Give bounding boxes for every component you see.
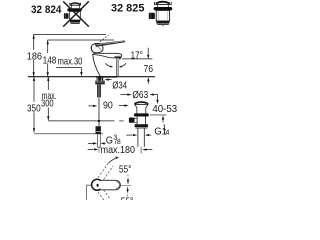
- svg-text:/4: /4: [164, 130, 170, 137]
- G3/8 connector nut: [96, 126, 101, 133]
- below-counter mounting hardware: [97, 77, 104, 80]
- thread label G3/8: [88, 142, 106, 144]
- top view: leader bracket: [87, 185, 92, 200]
- threaded shank / supply hose column: [97, 84, 100, 97]
- svg-text:max.180: max.180: [101, 145, 136, 156]
- top view: faucet base circle: [92, 179, 103, 190]
- svg-text:32 825: 32 825: [111, 2, 144, 14]
- pipe centreline extension: [98, 147, 100, 152]
- pop-up waste icon: [149, 2, 172, 26]
- crossed-out pop-up waste icon: [63, 1, 89, 26]
- water line / outlet centreline: [117, 59, 119, 76]
- extension line at hose junction (max.300 level, dashed to waste port): [48, 120, 114, 122]
- aerator swivel arrow right: [121, 63, 126, 67]
- extension line at pipe end (350 level): [34, 133, 103, 135]
- dimension 186: [33, 35, 35, 77]
- dimension 350: [33, 77, 35, 133]
- top view: upper swivel arrow: [108, 158, 116, 163]
- top view: vertical swing arrow up: [127, 181, 129, 184]
- dimension 76 (outlet height): [122, 58, 152, 60]
- spout outlet slit: [114, 55, 121, 57]
- top view: spout (plan): [100, 180, 120, 190]
- top view: centre dot: [97, 184, 99, 187]
- dimension max.300: [47, 77, 49, 121]
- svg-text:90: 90: [103, 100, 113, 111]
- dimension max.180: [88, 148, 153, 151]
- hose junction dot: [98, 120, 100, 122]
- aerator swivel arrow left: [105, 63, 111, 67]
- pop-up waste: Ø63 dimension: [121, 93, 159, 104]
- reference line A (top of raised lever, 186): [33, 34, 106, 36]
- svg-text:Ø63: Ø63: [132, 90, 148, 101]
- svg-text:40-53: 40-53: [152, 104, 177, 115]
- svg-text:max.30: max.30: [58, 57, 83, 68]
- counter / deck line: [28, 76, 155, 78]
- svg-text:55°: 55°: [121, 196, 134, 200]
- hose lower section: [98, 97, 100, 126]
- supply pipe end: [98, 134, 101, 148]
- reference line B (top of spout body, 148): [47, 39, 114, 41]
- thread label G1 1/4: [126, 134, 151, 136]
- faucet spout deck: [93, 53, 122, 58]
- dimension 148: [47, 40, 49, 76]
- svg-text:148: 148: [43, 55, 57, 66]
- top view: spout tip centreline: [121, 185, 131, 187]
- body left edge: [93, 55, 100, 77]
- aerator nub: [119, 58, 121, 59]
- faucet lever blade: [95, 41, 125, 47]
- svg-text:17°: 17°: [131, 50, 143, 61]
- pop-up waste body: [129, 102, 149, 154]
- faucet lever knob: [91, 43, 103, 52]
- dashed raised-lever line (17 degrees): [95, 35, 109, 46]
- svg-text:32 824: 32 824: [31, 4, 61, 16]
- svg-text:Ø34: Ø34: [112, 81, 127, 92]
- dimension 90: [88, 104, 128, 107]
- svg-text:55°: 55°: [119, 165, 132, 176]
- body right edge: [116, 58, 118, 76]
- faucet base on counter: [96, 76, 117, 78]
- top view: dashed swivel position upper: [98, 163, 108, 178]
- svg-text:76: 76: [144, 64, 154, 75]
- svg-text:186: 186: [27, 51, 42, 62]
- svg-text:300: 300: [41, 99, 54, 110]
- top view: vertical swing arrow down: [127, 187, 129, 190]
- top view: dashed swivel position lower: [98, 192, 104, 200]
- label arrow for Ø34: [105, 78, 112, 80]
- svg-text:350: 350: [27, 104, 41, 115]
